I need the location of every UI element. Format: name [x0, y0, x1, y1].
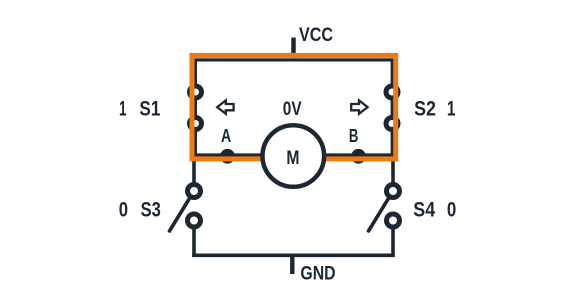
arrow left (current direction indicator) — [217, 100, 233, 113]
switch S4 contact terminals — [387, 185, 400, 228]
wire from switch S4 down to ground rail — [391, 228, 395, 257]
svg-text:VCC: VCC — [299, 25, 333, 46]
switch S2 contact terminals — [386, 86, 398, 130]
highlighted current path (orange) — [192, 55, 396, 158]
switch S3 contact terminals — [188, 185, 201, 228]
svg-text:GND: GND — [300, 263, 335, 285]
node B junction dot — [351, 149, 366, 164]
svg-text:S2: S2 — [414, 98, 436, 121]
switch S4 lever (open) — [369, 191, 394, 231]
VCC supply stub wire — [291, 38, 296, 59]
svg-text:1: 1 — [447, 98, 456, 121]
arrow right (current direction indicator) — [351, 100, 367, 113]
wire from node B rail corner down to switch S4 — [391, 157, 395, 184]
wire from node A rail corner down to switch S3 — [192, 155, 196, 184]
ground stub wire — [290, 255, 294, 274]
svg-text:M: M — [286, 148, 299, 169]
switch S3 lever (open) — [170, 191, 195, 231]
svg-text:0: 0 — [119, 198, 128, 221]
motor M — [263, 125, 325, 187]
svg-text:S4: S4 — [413, 198, 435, 221]
svg-text:A: A — [221, 126, 231, 146]
node A junction dot — [220, 149, 235, 164]
svg-text:0V: 0V — [283, 98, 302, 120]
svg-text:S3: S3 — [141, 198, 161, 221]
svg-text:S1: S1 — [139, 98, 160, 121]
wire from switch S3 down to ground rail — [192, 228, 196, 257]
wire H-bridge box frame (top rail, S1 branch, S2 branch, motor rail) — [195, 60, 392, 155]
svg-text:1: 1 — [119, 98, 127, 121]
svg-text:B: B — [349, 126, 359, 146]
svg-text:0: 0 — [447, 198, 456, 221]
wire ground bottom rail — [192, 254, 395, 258]
switch S1 contact terminals — [190, 86, 202, 130]
